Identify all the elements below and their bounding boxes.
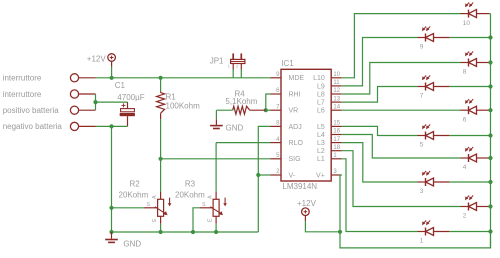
connector pin 3 [70, 106, 78, 114]
wire LED2 to bus [489, 206, 491, 208]
wire LED anode bus [490, 14, 492, 248]
wire LED4 to bus [489, 157, 491, 159]
svg-text:9: 9 [276, 72, 280, 78]
LED 10 [461, 13, 469, 15]
LED 3 [418, 181, 426, 183]
svg-text:2: 2 [276, 169, 280, 175]
svg-text:17: 17 [333, 137, 340, 143]
svg-text:6: 6 [463, 116, 467, 123]
svg-text:L8: L8 [317, 91, 325, 98]
wire interruttore2 [96, 94, 128, 102]
pin 11 L9 [331, 85, 342, 87]
svg-text:R3: R3 [185, 180, 196, 189]
svg-text:4700µF: 4700µF [117, 93, 144, 102]
wire +12V bottom to V+ [305, 175, 341, 232]
node junction row2/row3 [93, 100, 97, 104]
node bus junction 9 [488, 35, 492, 39]
svg-text:V-: V- [289, 172, 296, 179]
svg-text:E: E [208, 218, 214, 222]
wire R3 S [193, 208, 200, 232]
pin 1 L1 [331, 158, 342, 160]
node bus junction 5 [488, 133, 492, 137]
node bus junction 3 [488, 180, 492, 184]
wire LED5 to bus [450, 135, 491, 137]
pin 8 ADJ [271, 125, 282, 127]
svg-text:RHI: RHI [289, 91, 301, 98]
svg-text:18: 18 [333, 145, 340, 151]
svg-text:A: A [152, 195, 158, 199]
svg-text:RLO: RLO [289, 140, 304, 147]
svg-text:L9: L9 [317, 83, 325, 90]
LED 2 [461, 206, 469, 208]
jumper JP1 [232, 53, 234, 59]
svg-text:L7: L7 [317, 100, 325, 107]
LED 8 [461, 62, 469, 64]
svg-text:VR: VR [289, 108, 299, 115]
wire L4 to LED4 [342, 135, 461, 159]
wire R3 E to rail [215, 224, 217, 232]
LED 6 [461, 109, 469, 111]
supply +12V top [108, 54, 116, 62]
capacitor C1 [127, 102, 129, 109]
wire R2 E to rail [160, 224, 162, 232]
wire +12V to rail [111, 67, 113, 78]
wire L6 to LED6 [342, 109, 461, 111]
svg-text:100Kohm: 100Kohm [166, 102, 201, 111]
wire ADJ/V- vertical [258, 126, 270, 232]
pin 6 RHI [271, 93, 282, 95]
svg-text:MDE: MDE [289, 75, 305, 82]
wire L10 to LED10 [342, 14, 461, 78]
svg-text:12: 12 [333, 88, 340, 94]
pin 18 L2 [331, 150, 342, 152]
svg-text:10: 10 [463, 20, 471, 27]
node junction R1/rail [159, 76, 163, 80]
svg-text:interruttore: interruttore [3, 74, 42, 83]
svg-text:20Kohm: 20Kohm [175, 191, 205, 200]
svg-text:15: 15 [333, 121, 340, 127]
svg-text:8: 8 [276, 121, 280, 127]
svg-text:L4: L4 [317, 132, 325, 139]
wire L3 to LED3 [342, 143, 418, 182]
svg-text:SIG: SIG [289, 156, 301, 163]
LED 4 [461, 157, 469, 159]
node bus junction 1 [488, 229, 492, 233]
wire L9 to LED9 [342, 38, 418, 86]
svg-text:L6: L6 [317, 108, 325, 115]
pin 14 L6 [331, 109, 342, 111]
jumper JP1 pins [232, 64, 234, 70]
wire R2 S [112, 207, 145, 209]
svg-text:negativo batteria: negativo batteria [3, 122, 63, 131]
node junction V- [256, 173, 260, 177]
LED 1 [418, 231, 426, 233]
svg-text:7: 7 [276, 104, 280, 110]
LED 9 [418, 37, 426, 39]
svg-text:5: 5 [276, 153, 280, 159]
pin 12 L8 [331, 93, 342, 95]
wire bottom rail [112, 231, 259, 233]
wire R1 to R2 [160, 119, 162, 192]
wire LED8 to bus [489, 62, 491, 64]
pin 7 VR [271, 109, 282, 111]
wire L1 to LED1 [342, 159, 418, 232]
svg-text:R2: R2 [130, 180, 141, 189]
svg-text:L3: L3 [317, 140, 325, 147]
supply +12V bottom [302, 208, 310, 216]
svg-text:L5: L5 [317, 124, 325, 131]
LED 7 [418, 86, 426, 88]
wire L7 to LED7 [342, 87, 418, 103]
pin 15 L5 [331, 125, 342, 127]
wire positivo batteria [95, 102, 97, 110]
svg-text:2: 2 [463, 213, 467, 220]
node junction R1/SIG [159, 157, 163, 161]
wire top rail [96, 77, 271, 79]
wire RHI [266, 94, 271, 110]
svg-text:11: 11 [333, 80, 340, 86]
svg-text:A: A [208, 195, 214, 199]
ground GND bottom [111, 232, 113, 239]
svg-text:L2: L2 [317, 148, 325, 155]
svg-text:R1: R1 [166, 93, 177, 102]
ground GND top [215, 119, 217, 125]
pin 17 L3 [331, 142, 342, 144]
wire negativo vertical [111, 126, 113, 232]
svg-text:L1: L1 [317, 156, 325, 163]
svg-text:3: 3 [333, 169, 337, 175]
pin 2 V- [271, 174, 282, 176]
svg-text:3: 3 [420, 188, 424, 195]
wire L2 to LED2 [342, 151, 461, 207]
svg-text:IC1: IC1 [281, 59, 294, 68]
svg-text:S: S [147, 202, 151, 208]
svg-text:C1: C1 [115, 81, 126, 90]
wire LED1 to bus [450, 231, 491, 233]
svg-text:ADJ: ADJ [289, 124, 302, 131]
svg-text:13: 13 [333, 96, 340, 102]
wire LED10 to bus [489, 13, 491, 15]
resistor R4 [250, 109, 266, 111]
node bus junction 7 [488, 84, 492, 88]
wire LED supply bus bottom [340, 232, 491, 248]
wire R3 A to RLO [215, 143, 217, 192]
wire L8 to LED8 [342, 63, 461, 95]
svg-text:20Kohm: 20Kohm [119, 191, 149, 200]
wire L5 to LED5 [342, 126, 418, 135]
wire LED7 to bus [450, 86, 491, 88]
svg-text:10: 10 [333, 72, 340, 78]
svg-text:9: 9 [420, 44, 424, 51]
svg-text:GND: GND [123, 240, 141, 249]
potentiometer R3 [213, 199, 219, 216]
wire LED3 to bus [450, 181, 491, 183]
svg-text:positivo batteria: positivo batteria [3, 106, 60, 115]
wire SIG [161, 158, 271, 160]
svg-text:14: 14 [333, 104, 340, 110]
svg-text:LM3914N: LM3914N [282, 182, 317, 191]
pin 4 RLO [271, 142, 282, 144]
svg-text:5,1Kohm: 5,1Kohm [225, 97, 257, 106]
svg-text:E: E [152, 218, 158, 222]
svg-text:interruttore: interruttore [3, 90, 42, 99]
connector pin 2 [70, 90, 78, 98]
pin 16 L4 [331, 134, 342, 136]
svg-text:7: 7 [420, 93, 424, 100]
svg-text:JP1: JP1 [210, 57, 224, 66]
svg-text:4: 4 [463, 164, 467, 171]
svg-text:1: 1 [420, 238, 424, 245]
pin 5 SIG [271, 158, 282, 160]
connector pin 4 [70, 122, 78, 130]
potentiometer R2 [158, 199, 164, 216]
wire V- [258, 174, 270, 176]
node bus junction 2 [488, 204, 492, 208]
svg-text:5: 5 [420, 142, 424, 149]
node bus junction 4 [488, 156, 492, 160]
pin 10 L10 [331, 77, 342, 79]
svg-text:L10: L10 [313, 75, 325, 82]
resistor R1 [160, 78, 162, 91]
svg-text:GND: GND [226, 124, 244, 133]
svg-text:16: 16 [333, 129, 340, 135]
LED 5 [418, 135, 426, 137]
svg-text:8: 8 [463, 69, 467, 76]
connector pin 1 [70, 74, 78, 82]
node bus junction 6 [488, 108, 492, 112]
pin 9 MDE [271, 77, 282, 79]
node junction +12V/rail [110, 76, 114, 80]
wire LED6 to bus [489, 109, 491, 111]
svg-text:4: 4 [276, 137, 280, 143]
pin 13 L7 [331, 101, 342, 103]
wire R4 to GND [215, 110, 217, 119]
node junction negativo [109, 124, 113, 128]
svg-text:6: 6 [276, 88, 280, 94]
node junction V+ feed [338, 230, 342, 234]
svg-text:V+: V+ [316, 172, 325, 179]
wire negativo batteria [96, 125, 128, 127]
svg-text:+12V: +12V [297, 199, 317, 208]
wire LED9 to bus [450, 37, 491, 39]
node bus junction 8 [488, 60, 492, 64]
svg-text:+12V: +12V [87, 55, 107, 64]
svg-text:S: S [202, 202, 206, 208]
pin 3 V+ [331, 174, 342, 176]
op-amp IC1 LM3914N box [281, 69, 331, 181]
svg-text:1: 1 [333, 153, 337, 159]
node junction VR [264, 108, 268, 112]
